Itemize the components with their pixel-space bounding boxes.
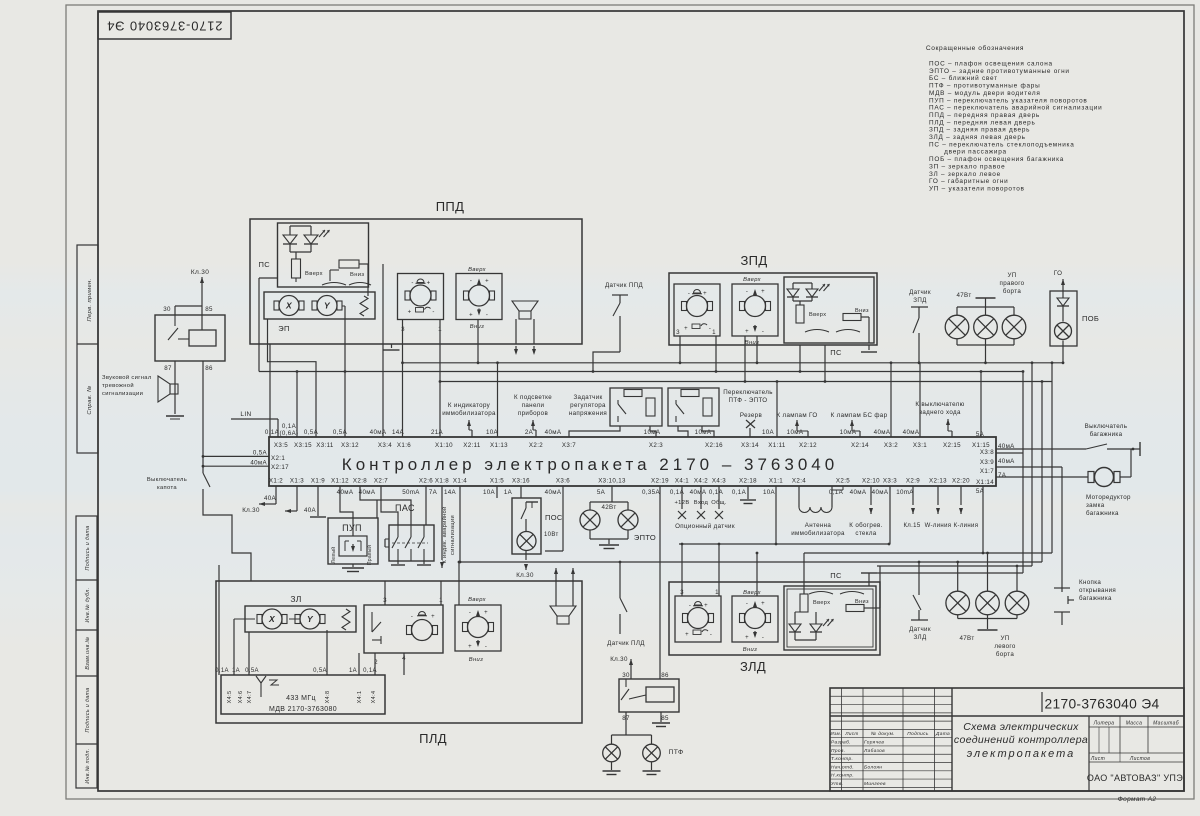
svg-text:-: - <box>689 603 691 609</box>
svg-text:X: X <box>285 301 293 311</box>
svg-text:ПТФ: ПТФ <box>668 749 683 756</box>
lamp ПОС <box>517 532 536 551</box>
svg-text:ЗП – зеркало правое: ЗП – зеркало правое <box>929 163 1005 170</box>
svg-text:УП: УП <box>1007 272 1016 279</box>
svg-text:10мА: 10мА <box>695 429 712 436</box>
lamp ПОБ box <box>1050 291 1077 346</box>
svg-text:7А: 7А <box>998 472 1007 479</box>
grounds ПТФ lamps <box>611 763 613 771</box>
svg-text:X4:1: X4:1 <box>675 478 689 485</box>
svg-text:+: + <box>761 289 765 295</box>
svg-text:Датчик ПЛД: Датчик ПЛД <box>607 640 645 647</box>
svg-text:сигнализации: сигнализации <box>102 391 143 397</box>
svg-text:X3:6: X3:6 <box>556 478 570 485</box>
svg-text:3: 3 <box>676 329 680 336</box>
ground horn <box>166 415 184 417</box>
svg-text:X2:19: X2:19 <box>651 478 669 485</box>
svg-text:+: + <box>408 310 412 316</box>
horn speaker <box>158 376 170 402</box>
svg-text:ППД: ППД <box>436 199 465 214</box>
svg-text:40А: 40А <box>264 495 277 502</box>
svg-text:-: - <box>710 632 712 638</box>
svg-text:замка: замка <box>1086 502 1105 509</box>
svg-text:Резерв: Резерв <box>740 412 763 419</box>
relay К1 coil <box>189 330 216 346</box>
svg-text:К обогрев.: К обогрев. <box>849 522 882 529</box>
svg-text:-: - <box>688 291 690 297</box>
svg-text:3: 3 <box>401 326 405 333</box>
wire lamp rail bottom (right bottom) <box>957 615 959 619</box>
wire ППД ПС right drop <box>367 287 369 296</box>
svg-text:X1:7: X1:7 <box>980 468 994 475</box>
lamps ЭПТО <box>611 486 613 502</box>
svg-text:X3:14: X3:14 <box>741 442 759 449</box>
svg-text:0,1А: 0,1А <box>709 489 724 496</box>
wire X2:6 to ПАС <box>425 486 427 525</box>
svg-text:Датчик: Датчик <box>909 289 931 296</box>
wire jog X3:11 <box>268 319 317 437</box>
svg-text:85: 85 <box>661 715 669 722</box>
wire ПОБ down <box>1062 341 1064 347</box>
svg-text:10А: 10А <box>483 489 496 496</box>
window motor box 1 (ППД) <box>398 274 444 320</box>
svg-text:-: - <box>411 281 413 287</box>
wire опционный датчик <box>681 486 683 509</box>
svg-text:Правый: Правый <box>366 545 373 565</box>
svg-text:X3:3: X3:3 <box>883 478 897 485</box>
relay К2 ПТФ <box>619 679 679 712</box>
svg-text:47Вт: 47Вт <box>956 292 971 299</box>
mirror motor X (ПЛД) <box>262 609 282 629</box>
svg-text:+: + <box>484 610 488 616</box>
svg-text:ПАС – переключатель аварийной: ПАС – переключатель аварийной сигнализац… <box>929 104 1102 112</box>
svg-text:Кнопка: Кнопка <box>1079 579 1101 586</box>
wire X3:15 riser <box>296 372 298 438</box>
svg-text:X2:16: X2:16 <box>705 442 723 449</box>
svg-text:правого: правого <box>1000 280 1025 287</box>
svg-text:1А: 1А <box>504 489 513 496</box>
svg-text:1А: 1А <box>349 668 357 674</box>
svg-text:ПЛД: ПЛД <box>419 731 447 746</box>
svg-text:Масса: Масса <box>1126 721 1143 727</box>
svg-text:40мА: 40мА <box>370 429 387 436</box>
svg-text:X2:5: X2:5 <box>836 478 850 485</box>
svg-text:X3:16: X3:16 <box>512 478 530 485</box>
wire bus lower 3 <box>458 561 1042 563</box>
motor моторедуктор замка багажника <box>996 476 1088 478</box>
svg-text:Моторедуктор: Моторедуктор <box>1086 494 1131 501</box>
wire ППД X3:5 drop <box>269 344 271 437</box>
svg-text:86: 86 <box>205 365 213 372</box>
svg-text:14А: 14А <box>444 489 457 496</box>
svg-text:85: 85 <box>205 306 213 313</box>
resistor Вниз (ППД ПС) <box>339 260 359 268</box>
wire X3:2 riser <box>890 363 892 437</box>
svg-text:Изм.: Изм. <box>830 731 841 736</box>
svg-text:ЗЛ – зеркало левое: ЗЛ – зеркало левое <box>929 171 1001 178</box>
wire X2:19 long down <box>659 486 661 672</box>
switch ПОС <box>520 486 522 498</box>
svg-text:борта: борта <box>996 651 1014 658</box>
resistor (ЗЛ) <box>342 609 350 630</box>
wire X3:6 L <box>562 486 564 551</box>
svg-text:2А: 2А <box>525 429 534 436</box>
svg-text:X2:20: X2:20 <box>952 478 970 485</box>
svg-text:-: - <box>411 614 413 620</box>
wire X1:11 riser <box>776 382 778 438</box>
svg-text:10А: 10А <box>763 489 776 496</box>
switch box (ПЛД) <box>364 605 443 653</box>
svg-text:10мА: 10мА <box>840 429 857 436</box>
wire ЗЛД pins <box>681 544 683 596</box>
svg-text:X3:12: X3:12 <box>341 442 359 449</box>
diode VD1 (ЗЛД ПС) <box>794 612 796 624</box>
svg-text:Общ.: Общ. <box>711 500 727 506</box>
lamp (ПОБ) <box>1055 323 1072 340</box>
svg-text:ППД – передняя правая дверь: ППД – передняя правая дверь <box>929 112 1040 119</box>
svg-text:Датчик ППД: Датчик ППД <box>605 282 643 289</box>
svg-text:приборов: приборов <box>518 410 549 417</box>
switch contacts (ЗЛД ПС) <box>809 592 833 595</box>
title block right grid <box>1088 716 1090 791</box>
svg-text:40мА: 40мА <box>850 489 867 496</box>
svg-text:40мА: 40мА <box>545 429 562 436</box>
svg-text:ЭПТО: ЭПТО <box>634 533 656 542</box>
svg-text:X1:8: X1:8 <box>435 478 449 485</box>
wire X2:10 обогрев <box>870 486 872 505</box>
svg-text:УП – указатели поворотов: УП – указатели поворотов <box>929 185 1025 192</box>
svg-text:Y: Y <box>307 614 314 624</box>
lamps УП левого борта <box>946 591 970 615</box>
svg-text:ПОБ: ПОБ <box>1082 314 1099 323</box>
wire ПОС Кл.30 <box>525 551 527 561</box>
ground X2:18 <box>747 486 749 499</box>
svg-text:+: + <box>468 644 472 650</box>
svg-text:40мА: 40мА <box>998 458 1015 465</box>
svg-text:X2:9: X2:9 <box>906 478 920 485</box>
svg-text:+: + <box>684 326 688 332</box>
svg-text:ПТФ - ЭПТО: ПТФ - ЭПТО <box>729 397 768 404</box>
wire bus upper 3 <box>440 381 1052 383</box>
svg-text:40мА: 40мА <box>903 429 920 436</box>
svg-text:Вниз: Вниз <box>350 272 364 278</box>
title block big number cell <box>830 715 1184 717</box>
wire X1:12 to ПУП <box>340 486 353 518</box>
svg-text:Вверх: Вверх <box>468 597 486 603</box>
wire X1:8 arrow down <box>441 486 443 560</box>
wire X3:1 riser <box>919 363 921 437</box>
svg-text:40мА: 40мА <box>872 489 889 496</box>
ПС switch box (ЗЛД) <box>784 586 876 650</box>
wire right bundle v2 <box>1031 363 1033 566</box>
wire ППД motor2 drop <box>477 320 479 344</box>
svg-text:тревожной: тревожной <box>102 382 134 389</box>
svg-text:X2:6: X2:6 <box>419 478 433 485</box>
resistor Вниз (ЗЛД ПС) <box>846 605 864 612</box>
svg-text:К-линия: К-линия <box>954 523 979 529</box>
svg-text:10mА: 10mА <box>896 489 914 496</box>
wire X1:15 riser <box>980 372 982 438</box>
svg-text:X2:11: X2:11 <box>463 442 481 449</box>
svg-text:МДВ 2170-3763080: МДВ 2170-3763080 <box>269 706 337 713</box>
svg-text:Антенна: Антенна <box>805 522 832 529</box>
svg-text:Кл.30: Кл.30 <box>610 656 628 663</box>
wire relay 86 down to hood switch <box>202 361 204 473</box>
svg-text:Лист: Лист <box>1090 756 1105 762</box>
svg-text:X2:2: X2:2 <box>529 442 543 449</box>
svg-text:ПУП: ПУП <box>342 523 362 533</box>
ПС switch box (ЗПД) <box>784 277 874 343</box>
svg-text:10мА: 10мА <box>644 429 661 436</box>
svg-text:Вверх: Вверх <box>305 271 323 277</box>
svg-text:Вверх: Вверх <box>743 277 761 283</box>
svg-text:Справ. №: Справ. № <box>87 385 93 414</box>
wire ППД ПС Вниз to X3:4 <box>382 264 384 437</box>
svg-text:Утв.: Утв. <box>831 781 843 787</box>
svg-text:Х4:5: Х4:5 <box>227 691 233 704</box>
svg-text:Х4:4: Х4:4 <box>371 691 377 704</box>
svg-text:МДВ – модуль двери водителя: МДВ – модуль двери водителя <box>929 90 1041 97</box>
svg-text:X1:12: X1:12 <box>331 478 349 485</box>
svg-text:-: - <box>432 310 434 316</box>
wire ЗПД pins drop <box>679 336 681 363</box>
svg-text:+: + <box>427 281 431 287</box>
wire X2:8 to ПАС <box>360 486 377 500</box>
svg-text:X2:12: X2:12 <box>799 442 817 449</box>
svg-text:ЗЛД: ЗЛД <box>914 634 927 641</box>
svg-text:21А: 21А <box>431 429 444 436</box>
svg-text:X1:2: X1:2 <box>269 478 283 485</box>
svg-text:панели: панели <box>522 402 545 409</box>
svg-text:2170-3763040 Э4: 2170-3763040 Э4 <box>1045 697 1160 712</box>
svg-text:напряжения: напряжения <box>569 410 607 417</box>
svg-text:-: - <box>762 329 764 335</box>
box переключатель ПТФ-ЭПТО <box>668 388 719 426</box>
svg-text:+: + <box>745 635 749 641</box>
svg-text:УП: УП <box>1000 635 1009 642</box>
svg-text:-: - <box>485 644 487 650</box>
svg-text:Мингеев: Мингеев <box>864 781 886 787</box>
svg-text:Y: Y <box>324 301 331 311</box>
svg-text:ПОБ – плафон освещения багажни: ПОБ – плафон освещения багажника <box>929 155 1064 163</box>
svg-text:Лабазов: Лабазов <box>863 748 885 754</box>
switch contacts (ППД ПС) <box>322 283 346 286</box>
svg-text:Т.контр.: Т.контр. <box>831 756 853 762</box>
svg-text:Контроллер электропакета 2170: Контроллер электропакета 2170 – 3763040 <box>342 455 838 474</box>
wire X1:5 stub <box>496 486 498 498</box>
svg-text:стекла: стекла <box>855 530 876 537</box>
svg-text:X3:10,13: X3:10,13 <box>598 478 626 485</box>
svg-text:-: - <box>469 610 471 616</box>
svg-text:ПУП – переключатель указателя: ПУП – переключатель указателя поворотов <box>929 97 1088 104</box>
ЗЛ mirror box (ПЛД) <box>245 606 356 632</box>
LED VD2 (ЗЛД ПС) <box>815 612 817 624</box>
wire X1:9 terminal <box>317 486 319 516</box>
svg-text:X: X <box>268 614 276 624</box>
mirror motor Y (ПЛД) <box>300 609 320 629</box>
left margin strip upper <box>77 245 98 453</box>
left margin strip lower <box>76 516 97 788</box>
svg-text:X1:10: X1:10 <box>435 442 453 449</box>
antenna МДВ <box>260 683 262 697</box>
top title box 2170-3763040 Э4 <box>98 12 231 39</box>
title block outer <box>830 688 1184 791</box>
svg-text:Горячев: Горячев <box>864 740 884 746</box>
svg-text:ЗПД – задняя правая дверь: ЗПД – задняя правая дверь <box>929 127 1030 134</box>
mirror motor Y (ППД) <box>317 296 337 316</box>
sensor Датчик ПЛД <box>619 562 621 598</box>
svg-text:левого: левого <box>994 643 1016 650</box>
svg-text:ЗПД: ЗПД <box>913 297 927 304</box>
svg-text:X1:1: X1:1 <box>769 478 783 485</box>
svg-text:заднего хода: заднего хода <box>919 409 961 416</box>
svg-text:0,1А: 0,1А <box>282 423 297 430</box>
svg-text:40мА: 40мА <box>690 489 707 496</box>
svg-text:Звуковой сигнал: Звуковой сигнал <box>102 374 152 381</box>
svg-text:багажника: багажника <box>1090 431 1123 438</box>
svg-text:Подпись: Подпись <box>907 731 929 737</box>
svg-text:К лампам БС фар: К лампам БС фар <box>831 412 888 419</box>
svg-text:Инв.№ подп.: Инв.№ подп. <box>85 748 91 783</box>
lamps УП правого борта <box>945 315 969 339</box>
svg-text:Нач.отд.: Нач.отд. <box>831 764 854 770</box>
svg-text:ЗЛД: ЗЛД <box>740 659 766 674</box>
svg-text:+: + <box>761 601 765 607</box>
svg-text:X1:4: X1:4 <box>453 478 467 485</box>
svg-text:30: 30 <box>163 306 171 313</box>
svg-text:-: - <box>470 279 472 285</box>
svg-text:X2:14: X2:14 <box>851 442 869 449</box>
wire bus lower 1 <box>679 543 889 545</box>
antenna иммобилизатора <box>798 486 800 507</box>
wire X1:14 down <box>982 486 984 553</box>
wires Кл.15 W-линия К-линия <box>912 486 914 505</box>
svg-text:Лист: Лист <box>844 731 858 736</box>
relay К1 switch <box>174 315 176 326</box>
svg-text:багажника: багажника <box>1086 510 1119 517</box>
svg-text:Подпись и дата: Подпись и дата <box>85 688 91 733</box>
wire ППД ПС left exit <box>259 277 278 279</box>
svg-text:Выключатель: Выключатель <box>1085 423 1128 430</box>
svg-text:ПС: ПС <box>258 260 270 269</box>
box ПАС <box>389 525 434 561</box>
wire relay 87 down <box>174 361 176 414</box>
svg-text:Левый: Левый <box>330 547 337 564</box>
wire ППД pin3 to X1:6 <box>402 320 404 437</box>
wire relay 87 to ПТФ lamps <box>625 712 627 735</box>
svg-text:К индикатору: К индикатору <box>448 402 491 409</box>
resistor Вниз (ЗПД ПС) <box>843 314 861 321</box>
button кнопка открывания багажника <box>1061 588 1063 592</box>
svg-text:+: + <box>469 313 473 319</box>
svg-text:X1:13: X1:13 <box>490 442 508 449</box>
svg-text:X3:9: X3:9 <box>980 459 994 466</box>
svg-text:Масштаб: Масштаб <box>1153 721 1179 727</box>
svg-text:40мА: 40мА <box>359 489 376 496</box>
wire ППД pin1 to X1:10 <box>439 320 441 437</box>
svg-text:X2:8: X2:8 <box>353 478 367 485</box>
svg-text:X2:7: X2:7 <box>374 478 388 485</box>
svg-text:ПТФ – противотуманные фары: ПТФ – противотуманные фары <box>929 83 1040 90</box>
svg-text:2170-3763040 Э4: 2170-3763040 Э4 <box>106 19 222 34</box>
wire speaker arrows up (ПЛД) <box>555 568 557 571</box>
wire ПТФ-ЭПТО pins <box>678 426 688 437</box>
svg-text:X3:11: X3:11 <box>316 442 334 449</box>
box МДВ <box>221 675 385 714</box>
switch выключатель капота <box>203 473 210 487</box>
svg-text:Болоян: Болоян <box>864 764 882 770</box>
wire X1:3 arrow <box>296 486 298 511</box>
ПС switch box (ППД) <box>278 223 369 287</box>
resistor (ППД ЭП) <box>360 296 368 316</box>
wire right bundle v3 <box>1041 382 1043 563</box>
svg-text:ЗЛ: ЗЛ <box>290 594 301 604</box>
svg-text:Кл.30: Кл.30 <box>516 572 534 579</box>
svg-text:X4:2: X4:2 <box>694 478 708 485</box>
svg-text:Задатчик: Задатчик <box>573 394 602 401</box>
svg-text:X1:6: X1:6 <box>397 442 411 449</box>
wire X3:8 stub <box>996 452 1023 454</box>
wire ППД Y motor drop <box>342 305 345 307</box>
wire window box top feed (ПЛД) <box>458 561 460 605</box>
svg-text:Датчик: Датчик <box>909 626 931 633</box>
svg-text:ПОС – плафон освещения салона: ПОС – плафон освещения салона <box>929 61 1053 68</box>
svg-text:сигнализации: сигнализации <box>450 515 456 555</box>
speaker (ППД) <box>512 301 538 311</box>
ground ЭПТО <box>599 544 619 546</box>
relay К1 horn <box>155 315 225 361</box>
ЭП mirror drive box (ППД) <box>264 292 375 319</box>
svg-text:ПС: ПС <box>830 348 842 357</box>
svg-text:Вверх: Вверх <box>468 267 486 273</box>
svg-text:10мА: 10мА <box>787 429 804 436</box>
svg-text:0,1А: 0,1А <box>215 668 229 674</box>
wire relay 86 feed <box>659 672 661 679</box>
svg-text:БС – ближний свет: БС – ближний свет <box>929 74 998 82</box>
svg-text:X2:13: X2:13 <box>929 478 947 485</box>
svg-text:-: - <box>486 313 488 319</box>
wire bus lower 4 <box>877 565 1032 567</box>
diode (ПОБ) <box>1062 291 1064 298</box>
relay К2 coil <box>646 687 674 702</box>
svg-text:Схема электрических: Схема электрических <box>963 721 1079 733</box>
wire задатчик pins <box>569 426 620 437</box>
svg-text:X2:4: X2:4 <box>792 478 806 485</box>
svg-text:Кл.30: Кл.30 <box>242 507 260 514</box>
svg-text:К подсветке: К подсветке <box>514 394 552 401</box>
svg-text:10Вт: 10Вт <box>544 532 559 538</box>
svg-text:42Вт: 42Вт <box>601 504 616 511</box>
svg-text:ГО – габаритные огни: ГО – габаритные огни <box>929 177 1008 185</box>
svg-text:X2:15: X2:15 <box>943 442 961 449</box>
ground ПС ЗЛД <box>861 572 877 574</box>
wire diode join (ППД ПС) <box>290 225 311 227</box>
switch выключатель багажника <box>996 448 1086 450</box>
wire X1:4 to bus <box>459 486 461 562</box>
svg-text:-: - <box>746 289 748 295</box>
svg-text:ПЛД – передняя левая дверь: ПЛД – передняя левая дверь <box>929 119 1036 126</box>
svg-text:87: 87 <box>164 365 172 372</box>
block ЗЛД outer box <box>669 582 880 655</box>
svg-text:5А: 5А <box>597 489 606 496</box>
svg-text:электропакета: электропакета <box>967 748 1076 760</box>
svg-text:Опционный датчик: Опционный датчик <box>675 523 735 530</box>
svg-text:+: + <box>485 279 489 285</box>
svg-text:капота: капота <box>157 485 177 491</box>
svg-text:-: - <box>746 601 748 607</box>
speaker (ПЛД) <box>550 606 576 616</box>
svg-text:двери пассажира: двери пассажира <box>929 149 1007 156</box>
